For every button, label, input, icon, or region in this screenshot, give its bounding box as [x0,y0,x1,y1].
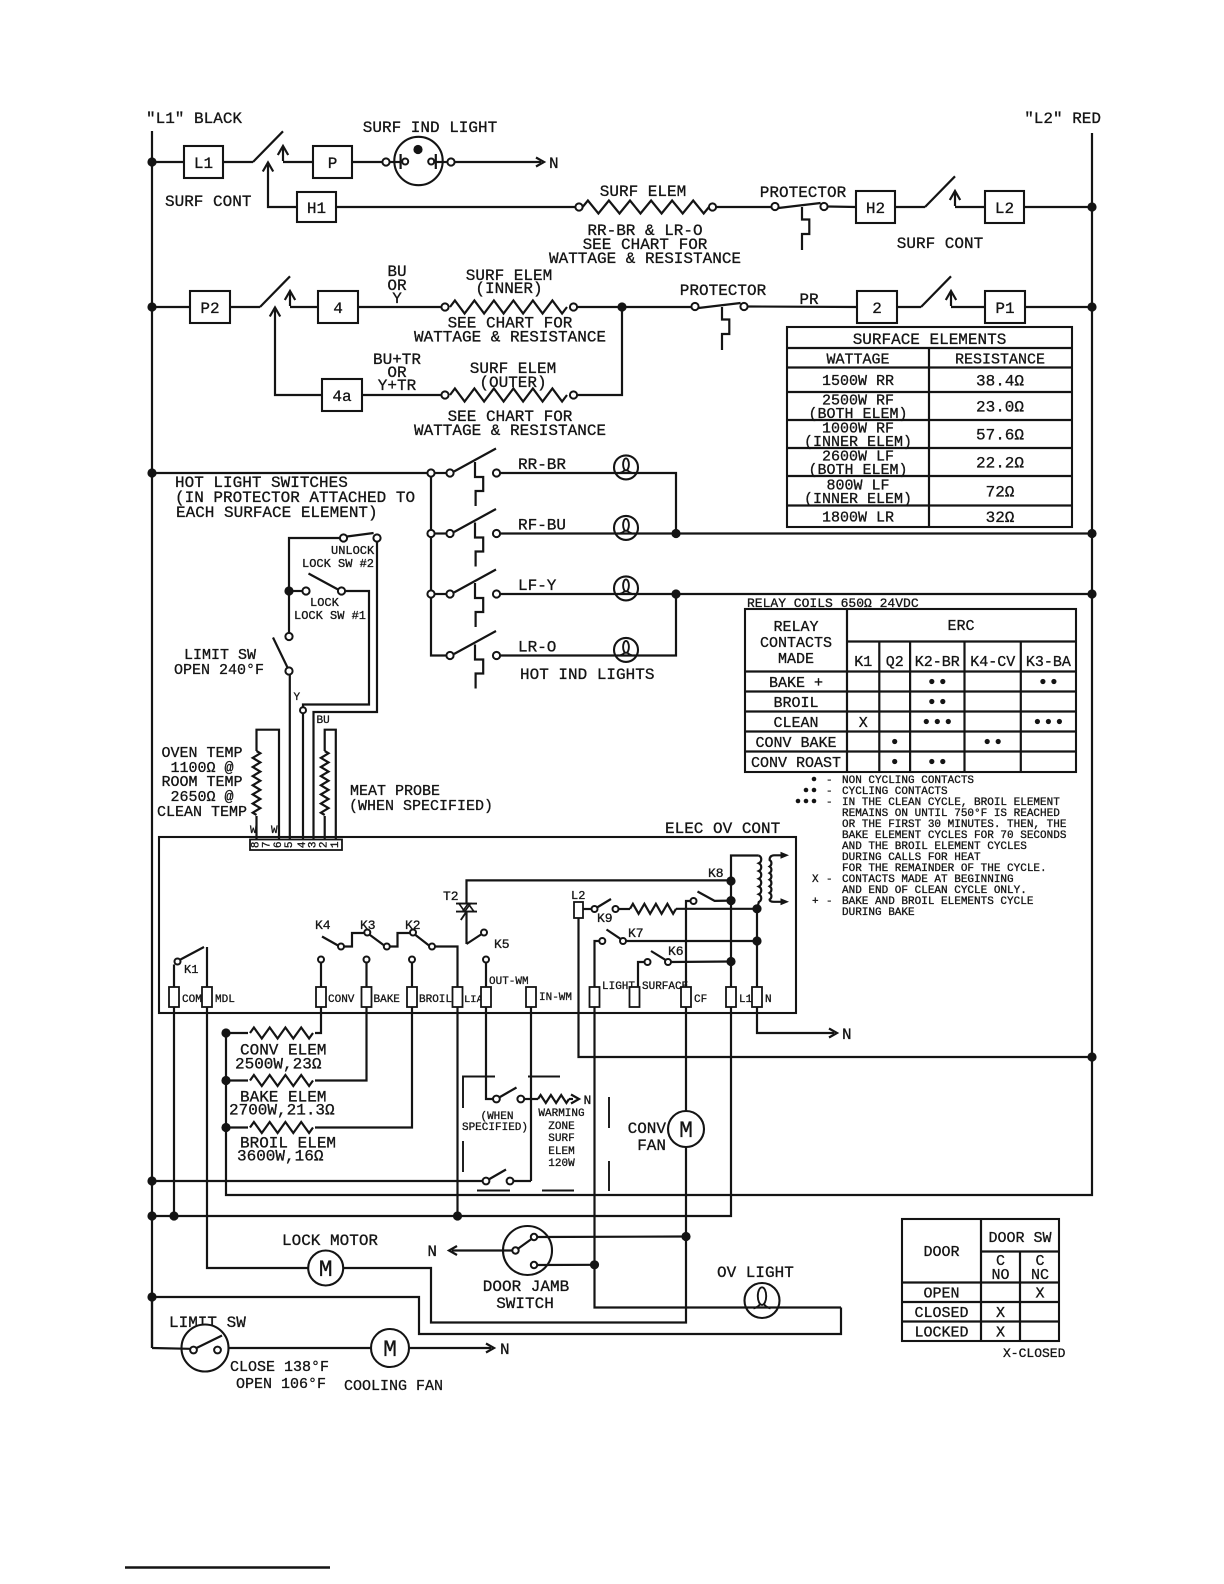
svg-text:3: 3 [308,841,320,848]
svg-text:OPEN 106°F: OPEN 106°F [236,1376,326,1393]
junction LF-Y / LR-O [671,589,680,598]
label LOCK SW #2 [302,544,375,571]
svg-text:X: X [996,1325,1005,1342]
svg-text:K4-CV: K4-CV [970,654,1015,671]
svg-text:NC: NC [1031,1267,1049,1284]
svg-text:RR-BR: RR-BR [518,456,566,474]
svg-text:K4: K4 [315,918,331,933]
wire bus to P2 [152,306,190,308]
protector row1 [771,203,827,250]
label K9 [597,911,613,926]
label K5 [494,937,510,952]
svg-text:"L1" BLACK: "L1" BLACK [146,110,242,128]
terminal BAKE [362,987,401,1007]
label LIMIT SW OPEN 240F [174,647,264,679]
wire L2 lamp lead down to right bus [579,918,1093,1057]
svg-text:COM: COM [182,994,202,1006]
svg-text:W: W [271,825,278,837]
junction row2 outer join [617,302,626,311]
wire switch to P1 [951,306,985,308]
label RR-BR [518,456,566,474]
junction LIGHT jamb [590,1260,599,1269]
svg-text:OPEN: OPEN [923,1286,959,1303]
wire cooling fan to N arrow [409,1344,494,1353]
wire IN-WM lead down [530,1007,532,1181]
svg-text:X: X [859,715,868,732]
wire H1 actuator arrow to switch [268,165,297,207]
switch hot light LR-O [431,631,500,689]
svg-text:SURF IND LIGHT: SURF IND LIGHT [363,119,497,137]
label COOLING FAN [344,1378,443,1395]
svg-text:DOOR SW: DOOR SW [988,1230,1051,1247]
node N (row1) [549,155,559,173]
svg-text:N: N [427,1243,437,1261]
svg-text:-: - [826,874,833,886]
junction lock sw node [284,586,293,595]
wire limit sw to cooling fan [229,1347,372,1349]
relay contact K2 [410,930,435,950]
svg-text:N: N [549,155,559,173]
label K7 [628,926,644,941]
terminal box P2 [190,291,230,323]
wire lock sw2 to connector pin3 (BU) [314,542,378,840]
svg-text:HOT IND LIGHTS: HOT IND LIGHTS [520,666,654,684]
svg-text:RF-BU: RF-BU [518,517,566,535]
lamp OV LIGHT [745,1283,780,1318]
wire H1 to SURF ELEM resistor [336,206,575,208]
junction K7 N line [752,936,761,945]
node "L2" RED label [1024,110,1101,128]
wire inner resistor to junction [577,306,691,308]
wire P2 to switch [230,306,260,308]
svg-text:K5: K5 [494,937,510,952]
svg-text:72Ω: 72Ω [986,483,1015,501]
wire resistor to protector row1 [716,206,771,208]
terminal LIA [453,987,484,1007]
label K2 [405,918,421,933]
switch hot light RR-BR [427,449,500,507]
wire row1 from bus to L1 box [152,161,184,163]
svg-text:PROTECTOR: PROTECTOR [760,184,847,202]
svg-text:T2: T2 [443,889,459,904]
wire jamb common to N arrow [449,1246,512,1255]
svg-text:CONV: CONV [628,1120,667,1138]
label BU OR Y [387,263,407,308]
label CLOSE 138F OPEN 106F [230,1359,329,1393]
svg-text:3600W,16Ω: 3600W,16Ω [237,1148,324,1166]
svg-text:CLOSE 138°F: CLOSE 138°F [230,1359,329,1376]
svg-text:H1: H1 [307,200,326,218]
label PR [799,291,819,309]
coil terminal BAKE [364,957,370,988]
wire CF lead down [343,1007,686,1323]
svg-text:K8: K8 [708,866,724,881]
svg-text:2700W,21.3Ω: 2700W,21.3Ω [229,1102,335,1120]
svg-text:EACH SURFACE ELEMENT): EACH SURFACE ELEMENT) [176,504,378,522]
terminal box L2 [985,191,1024,223]
svg-text:OPEN 240°F: OPEN 240°F [174,662,264,679]
terminal IN-WM [526,987,572,1007]
svg-text:Y: Y [294,692,301,704]
switch surf cont left (row1) [253,131,288,171]
svg-text:P2: P2 [200,300,219,318]
coil terminal BROIL [409,957,415,988]
terminal box H1 [297,192,336,222]
switch surf cont right (row1) [925,176,960,207]
svg-text:4a: 4a [332,388,352,406]
svg-text:X: X [1035,1286,1044,1303]
relay contact K7 [595,930,627,988]
relay contact K4 [322,933,364,950]
label RR-BR & LR-O chart note [549,222,741,268]
wire L2 red right bus [1091,133,1093,1057]
node N (cooling fan) [500,1341,510,1359]
terminal box P [313,146,352,178]
label RELAY COILS 650ohm 24VDC [747,596,919,611]
svg-text:SURF: SURF [548,1133,574,1145]
transformer ERC primary coil [757,856,761,909]
svg-text:120W: 120W [548,1158,575,1170]
svg-text:PROTECTOR: PROTECTOR [680,282,767,300]
wire lamp to N arrow [455,158,544,167]
terminal LIGHT [590,981,636,1007]
svg-text:L2: L2 [995,200,1014,218]
junction right bus oven light feed [1087,1052,1096,1061]
terminal CF [681,987,707,1007]
wire P box to lamp [352,161,390,163]
label PROTECTOR row2 [680,282,767,300]
svg-text:K1: K1 [184,963,198,977]
wire protector to H2 [828,205,856,208]
junction K6 L1 line [726,957,735,966]
svg-text:SURF CONT: SURF CONT [165,193,251,211]
lamp SURF IND LIGHT [382,137,454,185]
svg-text:H2: H2 [866,200,885,218]
svg-text:32Ω: 32Ω [986,509,1015,527]
coil terminal OUT-WM [483,957,489,988]
svg-text:N: N [500,1341,510,1359]
svg-text:+: + [812,896,819,908]
wire resistor to N line [676,908,757,910]
wire MDL lead down to lock motor [207,1007,308,1268]
svg-text:N: N [842,1026,852,1044]
svg-text:4: 4 [333,300,343,318]
junction broil elem [221,1123,230,1132]
table DOOR / DOOR SW [902,1219,1059,1342]
wire switch to 4 box [290,306,318,308]
svg-text:Q2: Q2 [886,654,904,671]
relay contact K1 [174,947,207,987]
connector P1 strip pins 8..1 [250,840,342,851]
svg-text:BAKE +: BAKE + [769,675,823,692]
junction transformer N line [752,904,761,913]
svg-text:SWITCH: SWITCH [496,1295,554,1313]
wire OUT-WM lead down [486,1007,493,1099]
label chart note inner [414,315,606,347]
junction left bus ov light loop [147,1292,156,1301]
svg-text:7: 7 [262,841,274,848]
wire switch to P box [283,161,313,163]
label OV LIGHT [717,1264,794,1282]
svg-text:UNLOCK: UNLOCK [331,544,375,558]
wire limit sw to connector pin5 (Y) [289,675,291,839]
svg-text:DURING BAKE: DURING BAKE [842,907,915,919]
wire actuator to 4a box [275,310,322,395]
svg-text:38.4Ω: 38.4Ω [976,372,1024,390]
label K8 [708,866,724,881]
lamp hot ind LF-Y [614,576,638,600]
wire switch to L2 box [955,206,985,208]
switch LIMIT SW cooling [152,1297,229,1372]
wire BROIL lead to element [315,1007,412,1128]
node "L1" BLACK label [146,110,242,128]
label K3 [360,918,376,933]
svg-text:K6: K6 [668,944,684,959]
terminal box 4a [322,379,362,411]
wire 4 box to inner resistor [358,306,441,308]
wire lock sw1 to connector pin4 [300,591,369,839]
dashed box warming zone [463,1077,609,1192]
svg-text:ERC: ERC [947,618,974,635]
svg-text:K2-BR: K2-BR [915,654,960,671]
switch LIMIT SW (oven, open 240F) [273,595,293,675]
wire LF-Y row to right bus [500,593,1092,595]
switch hot light LF-Y [427,570,500,628]
svg-text:BROIL: BROIL [773,695,818,712]
svg-text:-: - [826,797,833,809]
label WHEN SPECIFIED [462,1111,528,1134]
svg-text:Y+TR: Y+TR [378,377,417,395]
label LIMIT SW (cooling) [169,1314,246,1332]
relay contact K6 [638,951,671,987]
wire LR-O lamp to LF-Y row [500,594,676,656]
label SURF CONT (right) [897,235,983,253]
wire K7 to N vertical [626,940,757,942]
label CONV FAN [628,1120,667,1155]
svg-text:WATTAGE & RESISTANCE: WATTAGE & RESISTANCE [414,329,606,347]
svg-text:NO: NO [991,1267,1009,1284]
wire LIGHT lead down [595,1007,842,1308]
table SURFACE ELEMENTS [787,327,1072,527]
svg-text:(INNER): (INNER) [475,280,542,298]
label WARMING ZONE SURF ELEM 120W [538,1108,584,1170]
svg-text:DOOR JAMB: DOOR JAMB [483,1278,569,1296]
terminal N [752,987,772,1007]
label HOT IND LIGHTS [520,666,654,684]
junction conv elem [221,1028,230,1037]
label LOCK MOTOR [282,1232,378,1250]
motor COOLING FAN [371,1329,409,1367]
junction right bus LF-Y [1087,589,1096,598]
triac T2 [456,904,477,920]
resistor CONV ELEM [226,1028,313,1039]
svg-text:SURF ELEM: SURF ELEM [600,183,686,201]
svg-text:K9: K9 [597,911,613,926]
svg-text:M: M [383,1337,397,1363]
svg-text:WATTAGE & RESISTANCE: WATTAGE & RESISTANCE [549,250,741,268]
terminal box L1 [184,146,223,178]
svg-text:W: W [250,825,257,837]
label OVEN TEMP values [157,745,247,821]
junction left bus warming [147,1176,156,1185]
relay contact K5 [467,930,488,945]
label LOCK SW #1 [294,596,366,623]
svg-text:LF-Y: LF-Y [518,577,557,595]
label SURF ELEM (OUTER) [470,360,556,392]
switch warming zone upper (when specified) [493,1088,524,1103]
wire 2 box to switch [897,306,921,308]
junction RF-BU / RR-BR [671,529,680,538]
svg-text:L2: L2 [571,889,585,903]
svg-text:L1: L1 [739,994,753,1006]
junction bake elem [221,1076,230,1085]
label LF-Y [518,577,557,595]
svg-text:CF: CF [694,994,707,1006]
svg-text:LOCK: LOCK [310,596,340,610]
wire jamb NC contact to LIGHT line [537,1264,594,1266]
label T2 [443,889,459,904]
switch surf cont (row2 right) [921,276,956,307]
svg-text:OUT-WM: OUT-WM [489,976,529,988]
wire H2 to switch [895,206,925,208]
label K6 [668,944,684,959]
wire BAKE lead to element [315,1007,367,1081]
node N (door jamb) [427,1243,437,1261]
wire K8 L1 vertical [731,856,759,988]
junction COM bottom [169,1211,178,1220]
svg-text:2: 2 [872,300,882,318]
switch surf cont (row2 left) [260,276,295,316]
svg-text:"L2" RED: "L2" RED [1024,110,1101,128]
switch DOOR JAMB [503,1226,552,1275]
junction CF jamb [681,1232,690,1241]
switch LOCK SW #1 (LOCK) [289,574,345,595]
label ELEC OV CONT [665,820,780,838]
label SURF ELEM (INNER) [466,267,552,298]
wire RR-BR lamp to RF-BU row [500,473,676,534]
terminal box P1 [985,291,1025,323]
wire K2 to LIA terminal [435,947,458,988]
svg-text:MDL: MDL [215,994,235,1006]
wire jamb NO contact to CF line [537,1235,686,1238]
transformer ERC secondary coil [770,852,789,906]
terminal SURFACE [630,981,689,1007]
svg-text:X: X [812,874,819,886]
svg-text:5: 5 [284,841,296,848]
label DOOR JAMB SWITCH [483,1278,569,1313]
resistor SURF ELEM inner [441,301,577,314]
svg-text:CONTACTS: CONTACTS [760,635,832,652]
table RELAY CONTACTS / ERC [745,609,1076,772]
svg-text:22.2Ω: 22.2Ω [976,455,1024,473]
wire N lead to arrow [757,1007,837,1038]
svg-text:M: M [679,1118,693,1144]
svg-text:N: N [584,1093,592,1108]
label SURF ELEM (row1) [600,183,686,201]
label HOT LIGHT SWITCHES [175,474,415,522]
junction right bus row1 [1087,202,1096,211]
svg-text:P1: P1 [995,300,1014,318]
svg-text:DOOR: DOOR [923,1244,959,1261]
relay contact K8 [686,892,736,988]
terminal L1 [726,987,753,1007]
svg-text:K1: K1 [854,654,872,671]
svg-text:WARMING: WARMING [538,1108,584,1120]
wire bus to hot light switches [152,472,427,474]
label relay notes [796,775,1067,919]
resistor K9 dropping [619,904,676,914]
svg-text:-: - [826,896,833,908]
svg-text:L1: L1 [194,155,213,173]
svg-text:WATTAGE & RESISTANCE: WATTAGE & RESISTANCE [414,422,606,440]
label W W sensor leads [250,825,278,837]
svg-text:SURFACE ELEMENTS: SURFACE ELEMENTS [853,331,1007,349]
svg-text:K3: K3 [360,918,376,933]
svg-text:OV LIGHT: OV LIGHT [717,1264,794,1282]
box ELEC OV CONT controller [159,837,796,1013]
label RF-BU [518,517,566,535]
resistor BROIL ELEM [226,1122,313,1133]
resistor SURF ELEM outer [441,389,577,402]
junction LIA bottom [453,1211,462,1220]
svg-text:K3-BA: K3-BA [1026,654,1071,671]
label X-CLOSED [1003,1346,1066,1361]
label CONV ELEM 2500W 23ohm [235,1042,326,1074]
svg-text:WATTAGE: WATTAGE [826,352,889,369]
svg-text:M: M [319,1257,333,1283]
svg-text:K2: K2 [405,918,421,933]
sensor MEAT PROBE loop [321,730,336,839]
wire K6 to L1 vertical [671,960,731,963]
label SURF CONT (left) [165,193,251,211]
svg-text:(WHEN SPECIFIED): (WHEN SPECIFIED) [349,798,493,815]
junction left bus bottom feed [147,1211,156,1220]
resistor SURF ELEM row1 [575,201,716,214]
svg-text:MADE: MADE [778,651,814,668]
terminal box H2 [856,191,895,223]
terminal COM [169,987,202,1007]
svg-text:57.6Ω: 57.6Ω [976,427,1024,445]
terminal box 4 [318,291,358,323]
label chart note outer [414,408,606,440]
wire CONV lead to element [315,1007,321,1033]
svg-text:BU: BU [317,715,330,727]
wire 4a to outer resistor [362,394,441,396]
svg-text:ZONE: ZONE [548,1121,575,1133]
wire outer resistor up to row2 [577,307,622,395]
svg-text:1: 1 [330,841,342,848]
svg-text:N: N [765,994,772,1006]
svg-text:CONV BAKE: CONV BAKE [755,735,836,752]
label K4 [315,918,331,933]
svg-text:SURF CONT: SURF CONT [897,235,983,253]
svg-text:(INNER ELEM): (INNER ELEM) [804,491,912,508]
switch warming zone lower [152,1170,531,1185]
svg-text:FAN: FAN [637,1137,666,1155]
relay contact K3 [364,930,409,950]
svg-text:1800W LR: 1800W LR [822,510,894,527]
terminal BROIL [407,987,452,1007]
wire L2 box to right bus [1024,206,1092,208]
svg-text:CONV ROAST: CONV ROAST [751,755,841,772]
relay contact K9 [583,899,619,912]
wire L1 box to switch [223,161,253,163]
junction left bus hot lights [147,468,156,477]
svg-text:BAKE: BAKE [374,994,401,1006]
svg-text:P: P [328,155,338,173]
svg-text:1500W RR: 1500W RR [822,373,894,390]
label LR-O [518,639,556,657]
